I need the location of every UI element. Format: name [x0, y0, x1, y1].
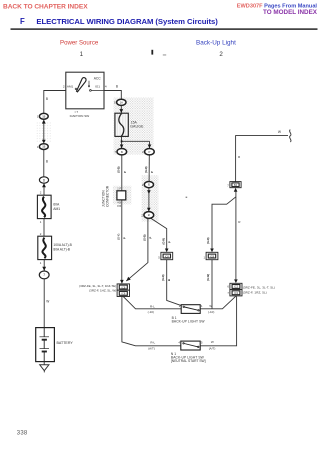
wire SB1 to switch1 (R-L) — [123, 297, 181, 309]
svg-text:IG1: IG1 — [95, 85, 100, 89]
svg-text:4: 4 — [178, 340, 180, 344]
junction connector J1 — [117, 191, 126, 200]
svg-text:4: 4 — [105, 85, 107, 89]
svg-text:1A: 1A — [120, 100, 123, 104]
svg-text:CONNECTOR: CONNECTOR — [106, 185, 110, 207]
arrow down into fuse — [119, 109, 123, 113]
svg-text:W: W — [211, 340, 214, 344]
arrow down into C2 — [42, 267, 46, 271]
svg-text:B: B — [46, 159, 48, 163]
small dash mark — [163, 54, 166, 55]
svg-text:1B: 1B — [42, 114, 45, 118]
svg-text:W: W — [209, 304, 212, 308]
splice C2 — [39, 271, 49, 279]
fusible link FL1 (40A AM1) — [37, 195, 51, 218]
svg-text:GAUGE: GAUGE — [130, 125, 144, 129]
svg-text:P: P — [148, 237, 152, 239]
page-break squiggle — [290, 130, 292, 142]
arrow down into SB1 from vertical — [120, 280, 124, 284]
svg-text:IGNITION SW: IGNITION SW — [70, 114, 90, 118]
wire FL2-C2 — [43, 260, 45, 271]
arrows — [42, 109, 238, 284]
svg-text:(G-R): (G-R) — [161, 238, 165, 245]
arrow down into IC8-right — [210, 249, 214, 253]
wire battery-ground — [43, 362, 45, 365]
arrow down into E2 — [42, 140, 46, 144]
svg-text:5: 5 — [201, 340, 203, 344]
svg-text:[NEUTRAL START SW]: [NEUTRAL START SW] — [171, 359, 206, 363]
arrow up into C1 — [42, 183, 46, 187]
back-up light switch 2 (A/T, neutral start sw) — [181, 341, 200, 350]
connector E4 — [117, 149, 127, 155]
small tick mark — [151, 50, 153, 55]
wire switch2 pin5 W to SB2 — [200, 296, 236, 346]
svg-text:BACK TO CHAPTER INDEX: BACK TO CHAPTER INDEX — [3, 4, 88, 11]
svg-text:2: 2 — [179, 304, 181, 308]
wire E4 down to SB1 — [121, 155, 123, 280]
svg-text:IC8: IC8 — [210, 254, 215, 258]
svg-text:IC3: IC3 — [234, 285, 239, 289]
connector E7 — [144, 212, 154, 219]
wire fuse to T junction — [121, 136, 123, 141]
svg-text:15A: 15A — [131, 120, 138, 124]
svg-text:R-L: R-L — [150, 340, 155, 344]
connector code box SB2 (stacked pair) — [230, 283, 242, 296]
connector E2 — [39, 144, 48, 150]
svg-text:5: 5 — [158, 255, 160, 259]
svg-text:BATTERY: BATTERY — [57, 341, 74, 345]
svg-text:(3RZ-F, 1RZ, 5L): (3RZ-F, 1RZ, 5L) — [243, 290, 267, 294]
svg-text:(-10): (-10) — [208, 310, 214, 314]
svg-text:1: 1 — [201, 304, 203, 308]
arrow up into BB1 — [234, 188, 238, 192]
svg-text:(-10): (-10) — [148, 310, 154, 314]
svg-text:R-L: R-L — [150, 304, 155, 308]
splice C1 — [39, 177, 48, 183]
shading: left connector pair region — [36, 122, 51, 143]
wire E2-C1 — [43, 150, 45, 177]
wire T to E5 — [149, 141, 151, 148]
svg-text:F: F — [20, 17, 25, 26]
connector code box IC8-right — [206, 252, 218, 259]
svg-text:7: 7 — [227, 183, 229, 187]
arrow down into E5 — [148, 145, 152, 149]
ignition switch lever — [77, 78, 87, 92]
connector code box IC8-mid — [161, 252, 173, 259]
wire T to E4 — [121, 141, 123, 148]
shading: connector E6/E7 region — [142, 175, 159, 221]
svg-text:ACC: ACC — [94, 77, 102, 81]
arrow up into E1 — [42, 119, 46, 123]
arrow into SB1 from diagonal — [125, 277, 131, 283]
wire FL1-FL2 — [43, 219, 45, 237]
wire BB1 up and to page edge — [236, 136, 288, 182]
wire SB1 down to switch2 (R-L A/T) — [122, 297, 181, 346]
svg-text:2: 2 — [40, 232, 42, 236]
connector code box BB1 — [230, 182, 241, 188]
title rule — [11, 28, 318, 29]
svg-text:B: B — [46, 97, 48, 101]
svg-text:R: R — [238, 155, 241, 159]
svg-text:AM1: AM1 — [53, 207, 60, 211]
shading: junction connector region — [113, 186, 131, 205]
connector E5 — [145, 149, 155, 155]
back-up light switch 1 (M/T) — [181, 305, 200, 314]
wire E5 down to E6 — [148, 155, 150, 182]
wire E3-fuse — [120, 105, 122, 113]
battery — [36, 328, 55, 362]
wire: ignition sw pin2 to E1 — [44, 91, 66, 114]
wire branch BB1 to IC8-right — [212, 197, 236, 249]
wire E7 branch down then diagonal to SB1 — [126, 218, 148, 281]
ACC contact stub — [88, 81, 90, 85]
stray speck — [186, 197, 188, 198]
svg-text:338: 338 — [17, 430, 28, 436]
wire switch1 pin1 W to SB2 — [200, 296, 236, 309]
svg-text:80A ALT)-B: 80A ALT)-B — [53, 247, 70, 251]
svg-text:B: B — [167, 279, 171, 281]
svg-text:2: 2 — [40, 191, 42, 195]
svg-text:7: 7 — [43, 273, 45, 277]
svg-text:TO MODEL INDEX: TO MODEL INDEX — [263, 9, 318, 16]
wire E1-E2 — [43, 123, 45, 140]
wire C1-FL1 — [43, 183, 45, 195]
svg-text:(G-R): (G-R) — [161, 274, 165, 281]
svg-text:IC8: IC8 — [121, 292, 126, 296]
connector E1 — [39, 113, 48, 119]
arrow down out of E6 — [147, 190, 151, 194]
junction dot below fuse — [121, 140, 123, 142]
arrow down into E7 — [147, 208, 151, 212]
svg-text:(3RZ-FE, 3L, 3L-T, 1KZ-TE): (3RZ-FE, 3L, 3L-T, 1KZ-TE) — [79, 284, 116, 288]
svg-text:(3RZ-FE, 3L, 3L-T, 5L): (3RZ-FE, 3L, 3L-T, 5L) — [243, 285, 275, 289]
svg-text:ELECTRICAL WIRING DIAGRAM (Sys: ELECTRICAL WIRING DIAGRAM (System Circui… — [36, 17, 218, 26]
wire IC8-right down to W node — [211, 260, 213, 309]
connector E6 — [144, 182, 153, 188]
svg-text:6: 6 — [227, 285, 229, 289]
svg-text:1: 1 — [37, 115, 39, 119]
svg-text:Back-Up Light: Back-Up Light — [196, 40, 236, 47]
svg-text:(A/T): (A/T) — [148, 346, 155, 350]
IG1 contact — [90, 90, 92, 92]
wire: ignition sw pin4 to E3 — [104, 91, 121, 100]
wire SB2 up to BB1 — [235, 192, 237, 280]
svg-text:1: 1 — [204, 255, 206, 259]
svg-text:IC8: IC8 — [165, 254, 170, 258]
svg-text:(G-B): (G-B) — [142, 234, 146, 241]
svg-text:P: P — [123, 237, 127, 239]
arrow down into IC8-mid — [165, 249, 169, 253]
svg-text:1B: 1B — [42, 145, 45, 149]
svg-text:(G-R): (G-R) — [206, 237, 210, 244]
svg-text:B: B — [116, 84, 118, 88]
svg-text:Power Source: Power Source — [60, 40, 99, 47]
wire E7 branch diagonal to IC8-mid — [151, 218, 167, 249]
svg-text:7: 7 — [227, 291, 229, 295]
arrow down into SB2 — [234, 279, 238, 283]
svg-text:P: P — [150, 171, 154, 173]
fuse 15A GAUGE — [115, 113, 128, 136]
svg-text:IC3: IC3 — [234, 291, 239, 295]
svg-text:(A/T): (A/T) — [209, 346, 216, 350]
connector code box SB1 (stacked pair) — [117, 284, 129, 297]
svg-text:(G-B): (G-B) — [117, 166, 121, 173]
svg-text:2: 2 — [219, 51, 223, 58]
AM1 contact — [75, 88, 77, 90]
ignition switch I7 box — [66, 72, 104, 109]
svg-text:8 B: 8 B — [117, 205, 121, 208]
wire C2-battery — [43, 279, 45, 328]
svg-text:1: 1 — [40, 261, 42, 265]
svg-text:IC8: IC8 — [121, 285, 126, 289]
svg-text:(3RZ-F, 1HZ, 5L, W): (3RZ-F, 1HZ, 5L, W) — [89, 289, 116, 293]
wire E6 to E7 — [148, 188, 150, 212]
svg-text:W: W — [46, 299, 49, 303]
svg-text:1: 1 — [80, 51, 84, 58]
fusible link FL2 (100A ALT) — [38, 236, 52, 259]
connector E3 — [117, 99, 126, 105]
shading: junction block around fuse — [114, 97, 154, 154]
svg-text:1 F: 1 F — [117, 188, 121, 191]
svg-text:2: 2 — [63, 85, 65, 89]
arrow down into E4 — [120, 145, 124, 149]
svg-text:BACK-UP LIGHT SW: BACK-UP LIGHT SW — [172, 320, 206, 324]
svg-text:W: W — [278, 130, 282, 134]
svg-text:(G-W): (G-W) — [206, 274, 210, 281]
svg-text:AM1: AM1 — [67, 85, 74, 89]
svg-text:(G-R): (G-R) — [144, 166, 148, 173]
svg-text:P: P — [167, 241, 171, 243]
svg-text:1: 1 — [37, 145, 39, 149]
svg-text:B4: B4 — [234, 183, 238, 187]
svg-text:R: R — [238, 220, 241, 224]
svg-text:P: P — [123, 171, 127, 173]
wire T horizontal — [122, 140, 150, 142]
ground symbol — [40, 365, 49, 371]
svg-text:(G-Y): (G-Y) — [116, 234, 120, 240]
svg-text:1: 1 — [40, 220, 42, 224]
wire IC8-mid down to switch1 pin2 — [167, 260, 182, 306]
